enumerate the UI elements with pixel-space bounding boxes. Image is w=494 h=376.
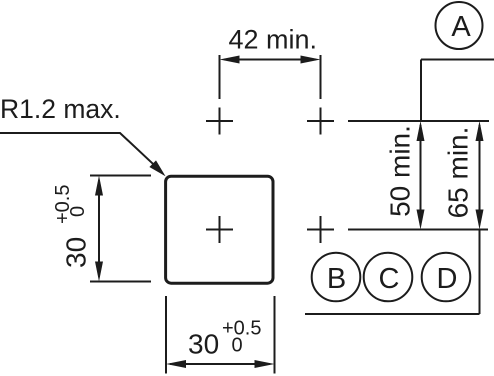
svg-text:A: A xyxy=(451,11,471,43)
svg-text:30: 30 xyxy=(61,237,92,268)
svg-text:C: C xyxy=(379,263,400,295)
svg-text:30: 30 xyxy=(188,329,219,360)
svg-text:42 min.: 42 min. xyxy=(229,25,318,55)
svg-text:D: D xyxy=(437,263,458,295)
svg-text:65 min.: 65 min. xyxy=(443,127,474,219)
svg-text:0: 0 xyxy=(232,335,243,357)
svg-text:B: B xyxy=(327,263,346,295)
svg-text:+0.5: +0.5 xyxy=(52,185,74,224)
svg-text:R1.2 max.: R1.2 max. xyxy=(0,94,121,124)
svg-text:0: 0 xyxy=(67,206,89,217)
svg-text:50 min.: 50 min. xyxy=(385,125,416,217)
